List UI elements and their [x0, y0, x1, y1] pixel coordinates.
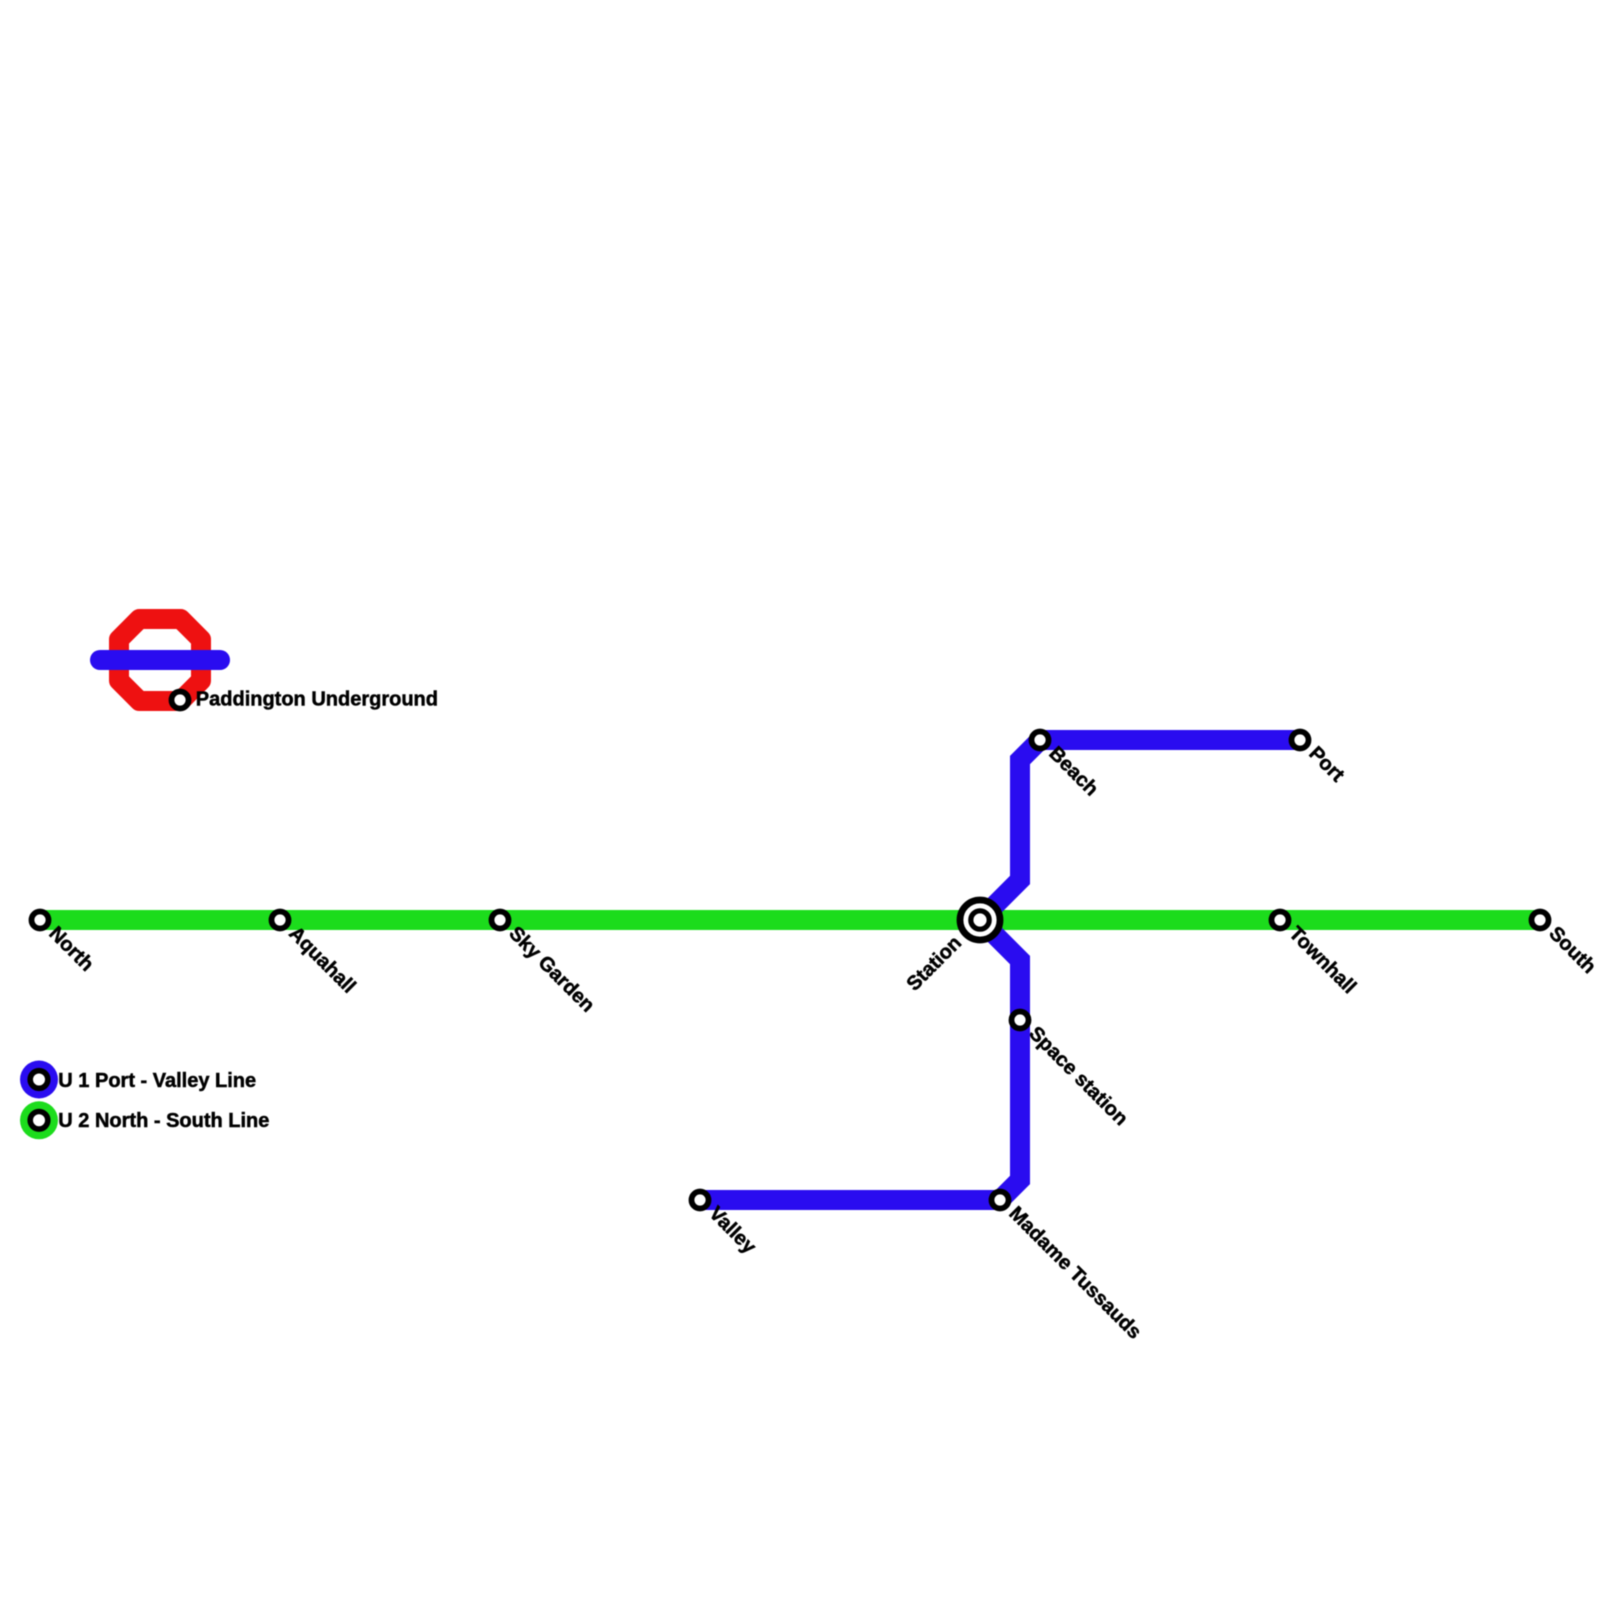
blue line U1 Port-Valley: [700, 740, 1300, 1200]
logo octagon (red ring): [119, 619, 201, 701]
station Sky Garden: [492, 912, 509, 929]
station Paddington Underground: [172, 692, 189, 709]
svg-text:Paddington Underground: Paddington Underground: [196, 689, 438, 711]
legend U2 symbol: [20, 1101, 58, 1139]
legend U1 symbol: [20, 1061, 58, 1099]
station Aquahall: [272, 912, 289, 929]
station Townhall: [1272, 912, 1289, 929]
interchange Station: [960, 900, 1000, 940]
station Madame Tussauds: [992, 1192, 1009, 1209]
station Port: [1292, 732, 1309, 749]
svg-text:U 2 North - South Line: U 2 North - South Line: [58, 1110, 269, 1132]
logo blue bar: [100, 650, 220, 670]
svg-text:U 1 Port - Valley Line: U 1 Port - Valley Line: [58, 1070, 256, 1092]
station South: [1532, 912, 1549, 929]
green line U2 North-South: [40, 910, 1540, 930]
station North: [32, 912, 49, 929]
station Space station: [1012, 1012, 1029, 1029]
station Valley: [692, 1192, 709, 1209]
station Beach: [1032, 732, 1049, 749]
